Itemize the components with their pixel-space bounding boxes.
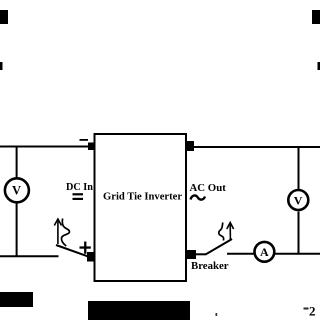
svg-text:V: V	[12, 184, 21, 198]
svg-text:V: V	[294, 193, 303, 207]
junk mark top-left corner	[0, 10, 8, 24]
ammeter A1	[255, 242, 275, 262]
wire from breaker to ammeter	[227, 253, 254, 255]
junk mark numeral 2 bottom-right	[304, 304, 316, 319]
wire right branch vertical lower	[298, 212, 300, 255]
AC symbol tilde	[191, 195, 206, 199]
junk bar bottom-left	[0, 292, 33, 307]
svg-text:2: 2	[309, 304, 316, 319]
wire from ammeter to right edge	[275, 253, 320, 255]
wire right branch vertical upper	[298, 147, 300, 189]
junk mark top-right corner	[312, 10, 320, 24]
terminal DC- bottom-left pin	[87, 252, 95, 262]
wire left branch vertical lower	[16, 203, 18, 258]
voltmeter V2	[288, 190, 308, 210]
terminal AC top-right pin	[187, 141, 194, 151]
DC symbol equals bars	[73, 193, 84, 200]
svg-text:Breaker: Breaker	[191, 260, 229, 272]
junk bar bottom-center	[88, 301, 190, 320]
svg-text:A: A	[260, 245, 269, 259]
junk tick left edge	[0, 62, 3, 70]
junk speck dot	[216, 313, 218, 316]
voltmeter V1	[5, 178, 29, 202]
wire bottom-left from edge to switch gap	[0, 255, 59, 257]
op block U1 Grid Tie Inverter box	[95, 134, 187, 281]
svg-text:AC Out: AC Out	[190, 182, 227, 194]
switch S1 blade open	[56, 245, 89, 257]
plus polarity label	[80, 242, 91, 254]
breaker S2 blade open	[206, 239, 233, 255]
breaker S2 actuation squiggle	[219, 223, 224, 241]
svg-text:Grid Tie Inverter: Grid Tie Inverter	[103, 192, 182, 203]
terminal AC bottom-right pin	[187, 250, 196, 259]
wire stub from AC bottom terminal to breaker pivot	[196, 253, 206, 255]
minus polarity label	[80, 139, 89, 141]
breaker S2 actuation arrow	[227, 223, 234, 240]
wire top-right from AC terminal to edge	[194, 146, 320, 148]
terminal DC+ top-left pin	[88, 143, 95, 151]
switch S1 actuation arrow	[54, 219, 61, 244]
switch S1 actuation squiggle	[61, 219, 69, 247]
junk tick right edge	[318, 62, 320, 70]
svg-text:DC In: DC In	[66, 182, 93, 193]
wire left branch vertical upper	[16, 147, 18, 179]
wire top-left from edge to inverter DC input terminal	[0, 146, 88, 148]
